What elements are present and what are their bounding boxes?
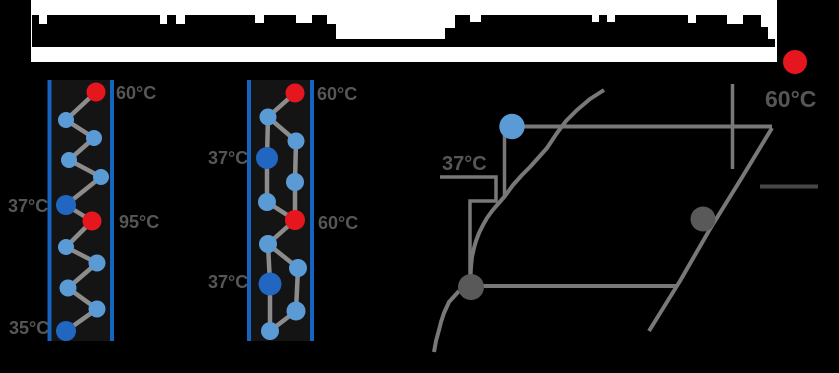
light blue dot <box>89 255 106 272</box>
drop line below 37C dot <box>503 132 507 197</box>
light blue dot <box>58 112 74 128</box>
right solution line <box>649 128 772 331</box>
light blue dot <box>261 322 279 340</box>
connector segments <box>267 93 298 331</box>
light blue dot <box>289 259 307 277</box>
title word bar left <box>32 15 336 39</box>
svg-text:60°C: 60°C <box>116 83 156 103</box>
zigzag connector polyline <box>66 92 101 331</box>
svg-text:37°C: 37°C <box>208 148 248 168</box>
channel interior fill <box>51 80 111 341</box>
light blue dot 37C <box>499 114 524 139</box>
title letter notches <box>39 15 768 27</box>
light blue dot <box>260 109 277 126</box>
svg-text:35°C: 35°C <box>9 318 49 338</box>
light blue dot <box>259 235 277 253</box>
red dot 60C top <box>286 84 305 103</box>
light blue dot <box>60 280 77 297</box>
light blue dot <box>93 169 109 185</box>
dark blue dot 35C <box>56 321 76 341</box>
blue wall line left <box>247 80 251 341</box>
gray dot bottom-left <box>458 274 484 300</box>
light blue dot <box>258 193 276 211</box>
left solution curve tail <box>434 291 459 352</box>
red dot 95C <box>83 212 102 231</box>
dark blue dot 37C <box>256 147 278 169</box>
top line <box>517 125 772 129</box>
dark blue dot 37C <box>56 195 76 215</box>
step line under 37C label <box>440 177 496 286</box>
dark blue dot 37C lower <box>259 273 282 296</box>
title word bar right <box>455 15 768 39</box>
light blue dot <box>89 301 106 318</box>
red dot 60C mid <box>285 210 305 230</box>
blue wall line right <box>310 80 314 341</box>
svg-text:95°C: 95°C <box>119 212 159 232</box>
svg-text:60°C: 60°C <box>318 213 358 233</box>
blue wall line right <box>110 80 114 341</box>
title partial glyph before gap <box>445 28 455 39</box>
title white band <box>31 0 777 62</box>
svg-text:37°C: 37°C <box>8 196 48 216</box>
light blue dot <box>288 133 305 150</box>
light blue dot <box>286 173 304 191</box>
svg-text:60°C: 60°C <box>765 86 816 112</box>
light blue dot <box>61 152 77 168</box>
red dot 60C legend <box>783 50 807 74</box>
light blue dot <box>287 302 306 321</box>
light blue dot <box>58 239 74 255</box>
light blue dot <box>86 130 102 146</box>
blue wall line left <box>48 80 52 341</box>
short tick line <box>760 185 818 189</box>
channel interior fill <box>251 80 311 341</box>
svg-text:37°C: 37°C <box>208 272 248 292</box>
svg-text:60°C: 60°C <box>317 84 357 104</box>
vertical marker line <box>731 84 735 169</box>
left solution curve <box>470 90 604 286</box>
svg-text:37°C: 37°C <box>442 153 487 175</box>
title underline bar <box>32 39 775 47</box>
red dot 60C <box>87 83 106 102</box>
gray dot right <box>691 207 716 232</box>
bottom line <box>471 284 678 288</box>
